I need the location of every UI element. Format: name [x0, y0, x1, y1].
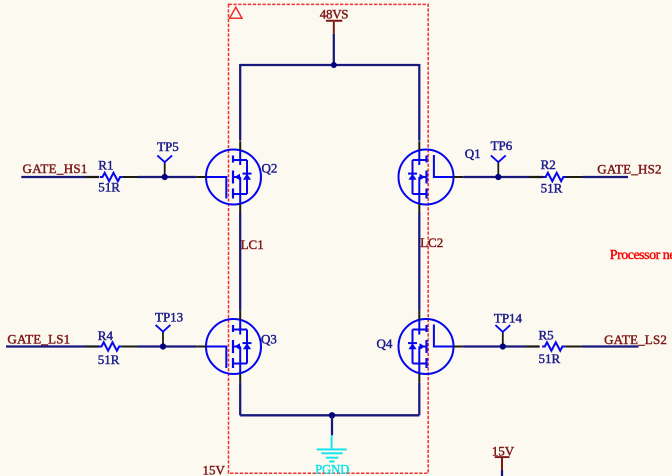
svg-text:R5: R5 [539, 328, 554, 343]
transistor Q2 (N-MOSFET) [196, 141, 277, 213]
resistor R5 [542, 342, 565, 350]
transistor Q4 (N-MOSFET, mirrored) [377, 311, 464, 383]
pin R1.2 [123, 176, 138, 178]
junction TP14 [500, 343, 506, 349]
resistor R1 [100, 173, 123, 181]
power port 15V (bottom right) [492, 443, 515, 470]
annotation dashed box [229, 4, 429, 473]
test point TP14 [494, 310, 523, 346]
junction bottom bus at PGND [329, 412, 335, 418]
junction top bus at 48VS [331, 62, 337, 68]
svg-text:51R: 51R [539, 351, 561, 366]
pin R2.1 [529, 176, 543, 178]
svg-text:51R: 51R [98, 180, 120, 195]
wire right leg upper [418, 64, 420, 141]
svg-text:Q1: Q1 [465, 146, 481, 161]
junction TP6 [495, 174, 501, 180]
wire Q4 gate to R5 [463, 345, 539, 347]
pin R5.2 [565, 346, 582, 348]
svg-text:Q3: Q3 [261, 332, 277, 347]
wire R5 to GATE_LS2 [582, 345, 639, 347]
wire 15V stem (bottom right) [501, 470, 503, 476]
annotation triangle marker [230, 7, 242, 18]
junction TP13 [160, 343, 166, 349]
wire left leg middle (LC1 net) [239, 212, 241, 310]
svg-text:GATE_HS1: GATE_HS1 [23, 161, 88, 176]
pin R4.1 [85, 346, 99, 348]
transistor Q3 (N-MOSFET) [196, 311, 277, 383]
wire left leg upper [239, 64, 241, 141]
pin R1.1 [85, 176, 99, 178]
test point TP6 [491, 138, 513, 177]
wire R2 to GATE_HS2 [583, 176, 628, 178]
wire R1 to Q2 gate [138, 176, 197, 178]
wire bottom bus [240, 414, 419, 416]
svg-text:GATE_LS1: GATE_LS1 [7, 331, 70, 346]
svg-text:PGND: PGND [315, 463, 349, 476]
svg-text:Q4: Q4 [377, 336, 393, 351]
wire R4 to Q3 gate [138, 345, 197, 347]
svg-text:TP13: TP13 [155, 309, 183, 324]
svg-text:R2: R2 [541, 157, 556, 172]
wire GATE_HS1 to R1 [21, 176, 99, 178]
svg-text:LC1: LC1 [241, 237, 264, 252]
wire 48VS stem [333, 34, 335, 65]
svg-text:GATE_HS2: GATE_HS2 [597, 162, 661, 177]
svg-text:51R: 51R [541, 181, 563, 196]
pin R4.2 [122, 346, 138, 348]
junction TP5 [162, 174, 168, 180]
test point TP13 [155, 309, 183, 346]
pin R5.1 [526, 346, 540, 348]
svg-text:Processor needs: Processor needs [610, 248, 672, 263]
ground PGND [315, 435, 349, 476]
wire right leg middle (LC2 net) [418, 212, 420, 310]
svg-text:TP14: TP14 [494, 310, 523, 325]
svg-text:15V: 15V [203, 463, 226, 476]
svg-text:R4: R4 [98, 328, 114, 343]
pin R2.2 [566, 176, 583, 178]
resistor R2 [543, 173, 566, 181]
wire PGND stem [331, 415, 333, 435]
transistor Q1 (N-MOSFET, mirrored) [399, 141, 481, 213]
svg-text:TP6: TP6 [491, 138, 513, 153]
wire right leg lower [418, 382, 420, 415]
svg-text:51R: 51R [98, 352, 120, 367]
svg-text:Q2: Q2 [262, 160, 278, 175]
svg-text:TP5: TP5 [157, 139, 179, 154]
svg-text:R1: R1 [98, 157, 113, 172]
power port 48VS [320, 6, 348, 33]
resistor R4 [99, 342, 122, 350]
wire left leg lower [239, 382, 241, 415]
svg-text:GATE_LS2: GATE_LS2 [604, 332, 667, 347]
svg-text:48VS: 48VS [320, 6, 348, 21]
test point TP5 [157, 139, 179, 177]
wire GATE_LS1 to R4 [6, 345, 99, 347]
svg-text:LC2: LC2 [420, 235, 443, 250]
wire top bus [240, 64, 419, 66]
wire Q1 gate to R2 [463, 176, 543, 178]
